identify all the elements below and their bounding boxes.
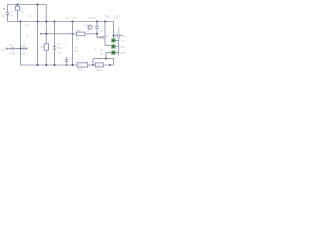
wire mid horizontal y33.8	[41, 33, 77, 35]
svg-text:5V1: 5V1	[58, 50, 63, 54]
svg-text:C4: C4	[99, 29, 103, 33]
capacitor C6	[114, 33, 123, 38]
wire input chain	[8, 48, 11, 50]
svg-text:10k: 10k	[75, 36, 80, 40]
svg-text:BZX: BZX	[57, 46, 62, 50]
capacitor C1	[6, 5, 10, 22]
svg-text:+8V85: +8V85	[86, 16, 96, 20]
svg-text:D3: D3	[57, 42, 61, 46]
capacitor C4 on x97	[95, 22, 99, 34]
wire vertical x20.5	[20, 22, 22, 66]
svg-text:C1: C1	[10, 10, 14, 14]
wire vertical x105	[105, 22, 111, 46]
svg-text:C2: C2	[28, 14, 32, 18]
svg-text:10n: 10n	[10, 14, 15, 18]
transistor Q1	[88, 25, 92, 29]
wire top rail	[8, 4, 47, 6]
wire vertical x46.3	[45, 5, 47, 44]
svg-text:TP1: TP1	[104, 14, 110, 18]
connector J1 pad 2	[111, 44, 115, 48]
wire loop y58.6	[93, 59, 114, 65]
diode D2	[97, 34, 100, 38]
wire pad3 to loop	[106, 53, 111, 59]
svg-text:100R: 100R	[77, 68, 83, 72]
svg-text:B1: B1	[20, 10, 24, 14]
capacitor C7	[65, 57, 69, 65]
svg-text:D1: D1	[9, 43, 13, 47]
svg-text:Q1: Q1	[84, 23, 88, 27]
svg-text:C3: C3	[39, 22, 43, 26]
battery terminal pad BT1	[16, 3, 18, 5]
bottom rail	[21, 64, 114, 66]
svg-text:16V: 16V	[74, 49, 79, 53]
zener diode D3	[54, 22, 56, 66]
svg-text:R9: R9	[100, 48, 104, 52]
node dots mid rail	[20, 21, 22, 23]
input terminal	[6, 48, 7, 49]
svg-text:D2: D2	[106, 34, 110, 38]
svg-text:IN: IN	[1, 48, 4, 52]
svg-text:C7: C7	[69, 57, 73, 61]
wire x93 riser	[92, 59, 94, 65]
svg-text:D4: D4	[22, 43, 26, 47]
connector J1 pad 1	[111, 38, 115, 42]
resistor R8 (box2)	[95, 63, 103, 67]
wire vertical x113.5 to pad1	[113, 22, 115, 39]
svg-text:R7: R7	[79, 63, 83, 67]
wire vertical x72.5	[72, 22, 74, 66]
svg-text:R2: R2	[26, 24, 30, 28]
svg-text:0R22: 0R22	[96, 68, 103, 72]
mid rail	[8, 21, 114, 23]
svg-text:5V6: 5V6	[21, 52, 26, 56]
resistor R3	[44, 44, 48, 50]
diode D1	[10, 47, 13, 50]
svg-text:OUT: OUT	[115, 15, 121, 19]
resistor R5	[76, 32, 84, 36]
connector J1 body	[116, 40, 119, 52]
connector J1 pad 3	[111, 51, 115, 55]
svg-text:R5: R5	[77, 28, 81, 32]
resistor R7 (box1)	[77, 63, 88, 67]
svg-text:R3: R3	[41, 45, 45, 49]
zener diode D4	[21, 48, 23, 50]
svg-text:4148: 4148	[9, 52, 15, 56]
svg-text:TP_OUT: TP_OUT	[66, 16, 77, 20]
svg-text:+12: +12	[120, 39, 125, 43]
svg-text:GND: GND	[120, 51, 126, 55]
svg-text:R1: R1	[2, 14, 6, 18]
svg-text:R8: R8	[97, 63, 101, 67]
svg-text:OUT: OUT	[120, 45, 126, 49]
wire vertical x37.5	[37, 5, 39, 66]
node top rail junction	[36, 3, 38, 5]
